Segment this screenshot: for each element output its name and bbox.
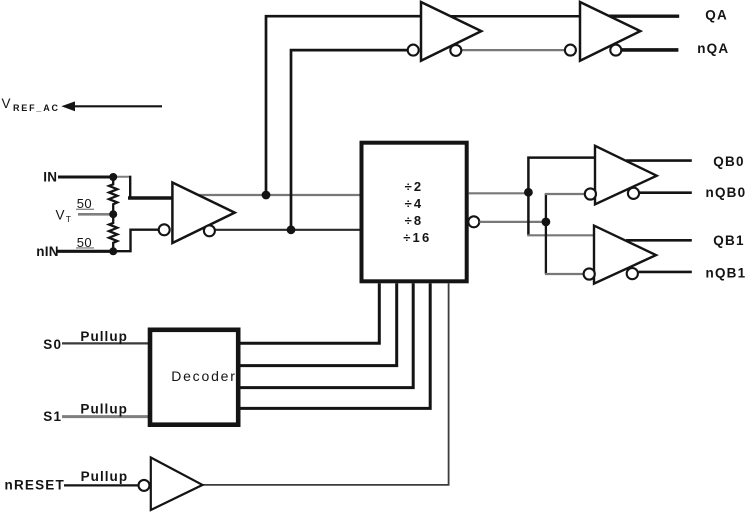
svg-text:Decoder: Decoder bbox=[171, 368, 237, 384]
wire QA output bbox=[600, 15, 679, 18]
node U1 out true junction bbox=[262, 191, 271, 200]
svg-text:nIN: nIN bbox=[36, 244, 58, 259]
wire nIN to buffer bbox=[113, 230, 160, 252]
wire QB1 top input bbox=[527, 234, 594, 236]
wire U1 output comp to divider bbox=[213, 229, 360, 231]
buffer QB1 bbox=[594, 226, 656, 284]
svg-text:Pullup: Pullup bbox=[80, 401, 128, 416]
A1 input bubble bbox=[408, 45, 419, 56]
wire A1 to A2 comp bbox=[456, 49, 570, 51]
wire U1 output true to divider bbox=[198, 194, 360, 196]
wire QB1 output bbox=[626, 239, 692, 242]
svg-text:QB1: QB1 bbox=[713, 233, 744, 248]
buffer QB0 bbox=[595, 146, 657, 205]
node nIN junction bbox=[109, 247, 117, 255]
wire decoder out 4 bbox=[238, 283, 430, 408]
wire decoder out 1 bbox=[238, 283, 379, 343]
QB0 output bubble bbox=[628, 188, 639, 199]
svg-text:nQA: nQA bbox=[697, 41, 729, 56]
wire nRESET bbox=[64, 484, 139, 486]
wire IN bbox=[58, 176, 114, 179]
svg-text:nQB1: nQB1 bbox=[706, 266, 746, 281]
wire divider out comp bbox=[480, 221, 548, 223]
U2 input bubble bbox=[139, 480, 150, 491]
svg-text:QB0: QB0 bbox=[713, 154, 744, 169]
wire nQB1 output bbox=[639, 271, 692, 274]
QB1 output bubble bbox=[627, 268, 638, 279]
wire nRESET buffer output to divider bbox=[203, 283, 449, 485]
wire S1 bbox=[62, 415, 150, 418]
svg-text:nQB0: nQB0 bbox=[706, 185, 746, 200]
resistor R2 bbox=[109, 214, 117, 251]
svg-text:Pullup: Pullup bbox=[81, 469, 129, 484]
A2 output bubble bbox=[610, 45, 621, 56]
nRESET buffer U2 bbox=[151, 458, 203, 511]
divider output bubble bbox=[468, 216, 479, 227]
wire A1 to A2 top bbox=[448, 15, 581, 18]
svg-text:T: T bbox=[66, 214, 71, 224]
svg-text:QA: QA bbox=[705, 7, 728, 22]
QB1 input bubble bbox=[584, 268, 595, 279]
wire decoder out 2 bbox=[238, 283, 397, 365]
wire QB1 comp input bbox=[545, 273, 583, 275]
svg-text:S0: S0 bbox=[43, 337, 62, 352]
svg-text:÷4: ÷4 bbox=[405, 196, 424, 211]
wire divider out true bbox=[469, 192, 530, 194]
wire IN to buffer bbox=[113, 176, 130, 178]
buffer A2 bbox=[580, 2, 640, 61]
svg-text:V: V bbox=[56, 208, 65, 223]
svg-text:V: V bbox=[2, 96, 11, 111]
svg-text:S1: S1 bbox=[43, 409, 62, 424]
node IN junction bbox=[109, 173, 117, 181]
wire nQA output bbox=[616, 48, 678, 52]
wire QB vertical 2 bbox=[545, 193, 547, 274]
U1 output bubble bbox=[204, 225, 215, 236]
svg-text:IN: IN bbox=[43, 170, 57, 185]
node divider true junction bbox=[524, 188, 533, 197]
wire QB vertical 1 bbox=[528, 158, 595, 236]
resistor R1 bbox=[109, 177, 117, 215]
input buffer U1 bbox=[172, 183, 234, 244]
svg-text:Pullup: Pullup bbox=[80, 329, 128, 344]
svg-text:÷2: ÷2 bbox=[405, 179, 424, 194]
wire node to buffer A1 bottom bbox=[291, 50, 409, 230]
svg-text:÷16: ÷16 bbox=[403, 230, 431, 245]
wire S0 bbox=[62, 342, 150, 344]
VREF_AC arrow bbox=[61, 101, 75, 111]
node U1 out comp junction bbox=[287, 225, 296, 234]
wire VT bbox=[78, 213, 114, 216]
svg-text:nRESET: nRESET bbox=[5, 477, 65, 492]
svg-text:REF_AC: REF_AC bbox=[13, 103, 60, 113]
node VT junction bbox=[109, 210, 117, 218]
wire nIN bbox=[57, 250, 114, 253]
wire QB0 output bbox=[626, 159, 692, 162]
svg-text:÷8: ÷8 bbox=[405, 213, 424, 228]
decoder box bbox=[150, 330, 238, 425]
divider block bbox=[362, 143, 467, 282]
wire node to buffer A1 top bbox=[266, 16, 422, 195]
node divider comp junction bbox=[542, 218, 551, 227]
wire nQB0 output bbox=[640, 191, 692, 194]
wire decoder out 3 bbox=[238, 283, 413, 387]
U1 input bubble bbox=[159, 224, 170, 235]
A1 output bubble bbox=[450, 45, 461, 56]
A2 input bubble bbox=[565, 45, 576, 56]
wire QB0 comp input bbox=[545, 193, 585, 195]
buffer A1 bbox=[421, 2, 481, 61]
QB0 input bubble bbox=[585, 188, 596, 199]
